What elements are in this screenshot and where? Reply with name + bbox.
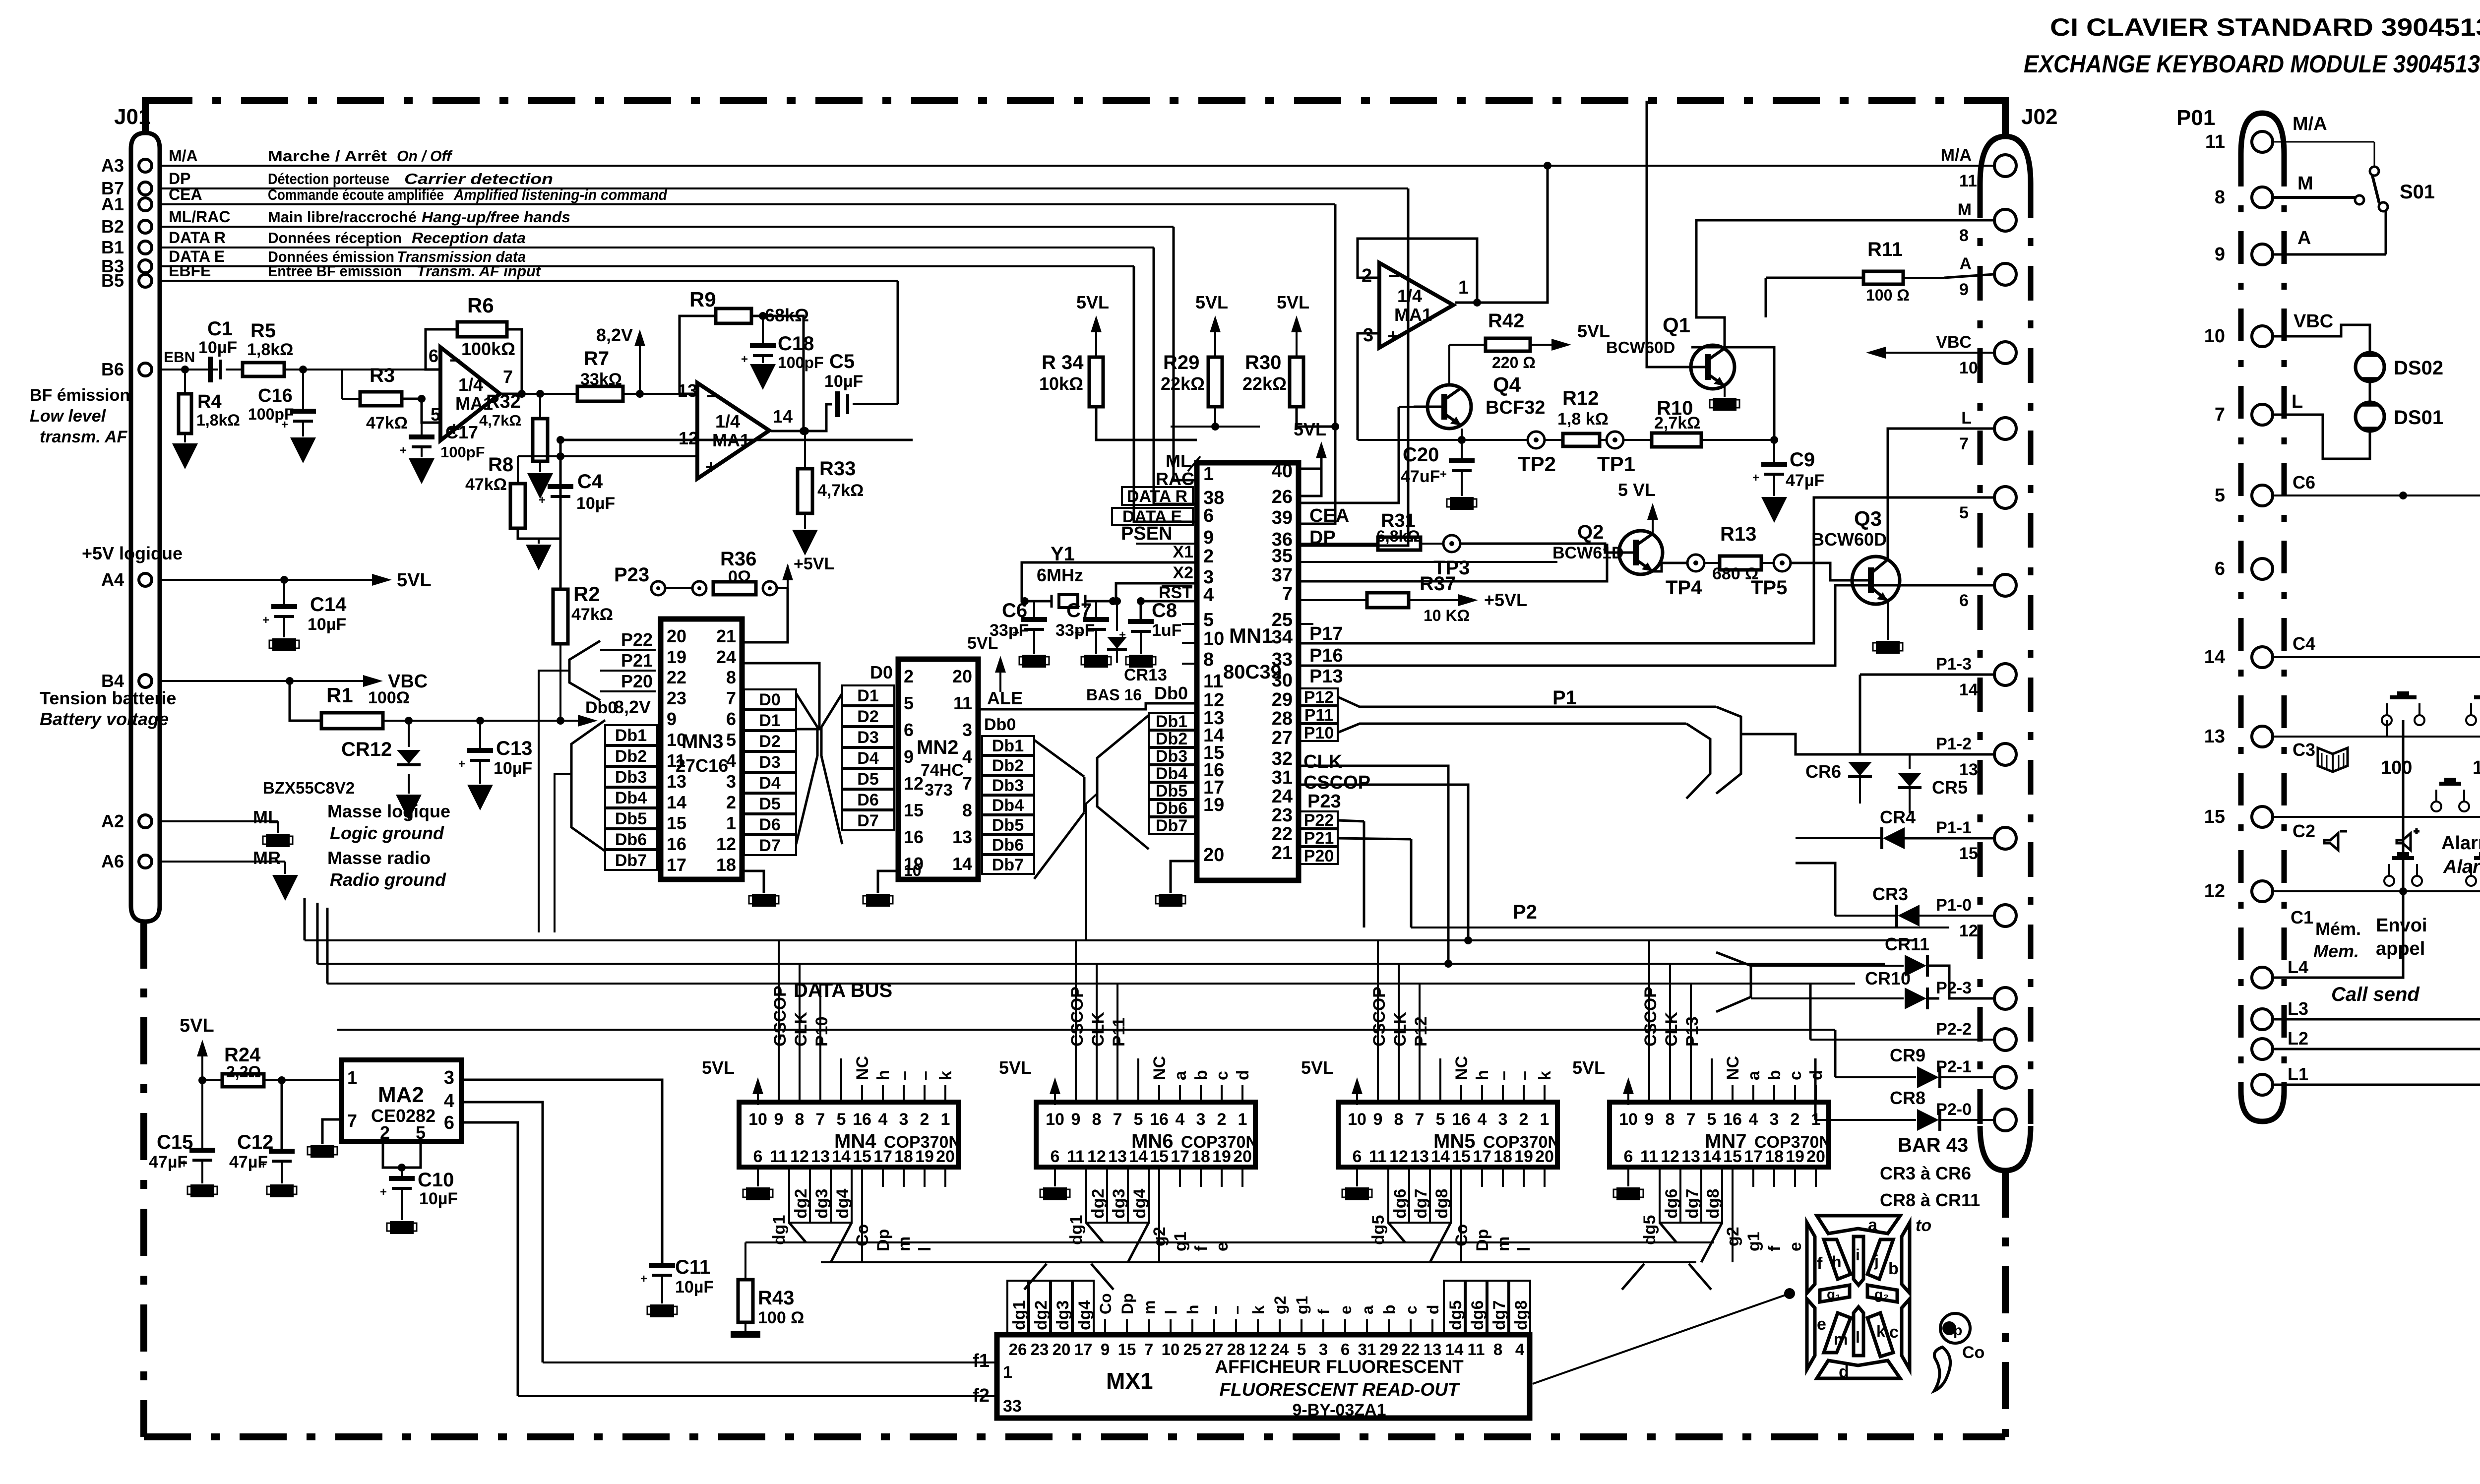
svg-text:7: 7	[1686, 1110, 1696, 1129]
svg-text:S01: S01	[2400, 181, 2435, 203]
capacitor C10	[380, 1169, 458, 1208]
wire opamp1 out	[500, 393, 578, 395]
wire signal M/A	[160, 165, 1994, 167]
svg-text:e: e	[1786, 1242, 1805, 1251]
svg-text:10µF: 10µF	[494, 759, 532, 778]
svg-text:dg6: dg6	[1391, 1189, 1410, 1219]
svg-text:1: 1	[347, 1067, 357, 1088]
svg-text:On / Off: On / Off	[397, 147, 453, 165]
svg-text:+: +	[1752, 471, 1759, 485]
resistor R43	[738, 1242, 804, 1327]
svg-text:9-BY-03ZA1: 9-BY-03ZA1	[1293, 1401, 1386, 1420]
diode CR5	[1898, 754, 1968, 813]
node P23 test point	[614, 564, 692, 595]
svg-text:1: 1	[941, 1110, 950, 1129]
node label 8,2V	[596, 325, 645, 398]
wire P17 line	[1299, 497, 1994, 643]
wire main board dash-dot border right below J02	[2002, 1171, 2009, 1437]
svg-text:Détection porteuse: Détection porteuse	[268, 170, 389, 187]
svg-text:B2: B2	[101, 216, 124, 237]
wire pointer diagonal	[1533, 1288, 1795, 1384]
ground C13	[467, 760, 493, 810]
node label P1	[1552, 687, 1577, 709]
svg-text:10: 10	[2473, 757, 2480, 778]
wire main board dash-dot border bottom	[144, 1433, 2005, 1440]
svg-text:f2: f2	[973, 1385, 990, 1406]
svg-text:f: f	[1192, 1245, 1211, 1251]
node J01 pin B2	[101, 216, 152, 237]
wire signal CEA	[160, 203, 1335, 205]
svg-text:L2: L2	[2288, 1028, 2308, 1049]
wire P1 bus a	[1338, 697, 1716, 707]
wire MN2 Db funnel	[1034, 740, 1084, 879]
capacitor C8	[1119, 597, 1197, 642]
svg-text:47µF: 47µF	[149, 1153, 187, 1172]
svg-text:Db6: Db6	[992, 836, 1024, 855]
wire MN3 funnel left	[555, 720, 605, 932]
node title line 1	[2050, 13, 2480, 41]
svg-text:33kΩ: 33kΩ	[580, 370, 622, 389]
svg-text:EBN: EBN	[164, 349, 195, 366]
node label BAR 43	[1898, 1134, 1968, 1156]
svg-text:CEA: CEA	[1309, 505, 1349, 526]
svg-text:9: 9	[2215, 244, 2225, 265]
svg-text:L3: L3	[2288, 998, 2308, 1019]
svg-text:D1: D1	[857, 686, 878, 705]
node 5VL crystal	[967, 634, 1006, 692]
svg-text:a: a	[1744, 1070, 1763, 1080]
diode CR4	[1796, 807, 1994, 849]
connector P01 module1 outline	[2176, 106, 2284, 1121]
svg-text:R13: R13	[1720, 523, 1756, 545]
svg-text:2: 2	[726, 792, 736, 812]
svg-text:to: to	[1916, 1216, 1931, 1235]
svg-text:10: 10	[748, 1110, 767, 1129]
svg-text:dg5: dg5	[1369, 1215, 1388, 1245]
wire cop drops MN5	[1378, 940, 1440, 1061]
wire signal EBFE	[160, 280, 898, 282]
wire X1 X2	[1021, 562, 1197, 605]
wire segment bus 2	[821, 1261, 1696, 1263]
svg-text:6,8kΩ: 6,8kΩ	[1376, 527, 1420, 545]
svg-text:6: 6	[1353, 1147, 1362, 1166]
svg-text:3: 3	[1319, 1340, 1328, 1359]
svg-text:R42: R42	[1488, 310, 1524, 332]
svg-text:f: f	[1817, 1254, 1823, 1273]
svg-text:14: 14	[1445, 1340, 1464, 1359]
svg-text:–: –	[895, 1071, 914, 1080]
wire TP3 to Q2	[1460, 544, 1614, 553]
wire module1 L2	[2273, 720, 2480, 1049]
svg-text:Db1: Db1	[992, 737, 1024, 755]
resistor R4	[179, 366, 240, 433]
svg-text:29: 29	[1380, 1340, 1398, 1359]
wire signal ML/RAC	[160, 226, 1174, 228]
svg-text:D7: D7	[857, 811, 878, 830]
svg-text:17: 17	[1074, 1340, 1093, 1359]
svg-text:14: 14	[2204, 647, 2225, 668]
svg-text:NC: NC	[853, 1056, 872, 1080]
capacitor C15	[149, 1076, 215, 1172]
svg-text:b: b	[1888, 1259, 1899, 1278]
transistor Q3	[1791, 507, 1900, 604]
svg-text:A4: A4	[101, 569, 124, 590]
svg-text:13: 13	[1410, 1147, 1429, 1166]
ground ML	[160, 821, 293, 847]
svg-text:33pF: 33pF	[1055, 621, 1095, 640]
svg-text:–: –	[1515, 1071, 1534, 1080]
svg-text:20: 20	[1203, 845, 1224, 866]
svg-text:CR3: CR3	[1872, 884, 1908, 904]
svg-text:A2: A2	[101, 811, 124, 831]
svg-text:g1: g1	[1744, 1232, 1763, 1251]
svg-text:9: 9	[1101, 1340, 1110, 1359]
svg-text:ML: ML	[253, 807, 279, 827]
svg-text:10µF: 10µF	[824, 372, 863, 391]
wire MN1 pin40 5VL	[1294, 419, 1327, 496]
svg-text:12: 12	[2204, 881, 2225, 902]
wire P2x verticals	[1810, 984, 1835, 1120]
svg-text:Masse radio: Masse radio	[327, 848, 431, 868]
svg-text:47kΩ: 47kΩ	[465, 475, 507, 494]
wire R36 5VL	[777, 555, 834, 591]
svg-text:14: 14	[667, 792, 686, 812]
svg-text:–: –	[1494, 1071, 1513, 1080]
svg-text:8: 8	[1493, 1340, 1502, 1359]
svg-text:10: 10	[1162, 1340, 1180, 1359]
svg-text:20: 20	[667, 626, 686, 646]
node TP2	[1518, 432, 1556, 476]
svg-text:3: 3	[899, 1110, 909, 1129]
svg-text:Db4: Db4	[992, 796, 1024, 815]
svg-text:AFFICHEUR FLUORESCENT: AFFICHEUR FLUORESCENT	[1215, 1357, 1464, 1377]
op-amp MA1a	[429, 346, 513, 440]
svg-text:NC: NC	[1452, 1056, 1471, 1080]
svg-text:3: 3	[1196, 1110, 1206, 1129]
wire MA2 pin4	[461, 1102, 543, 1362]
node title line 2	[2024, 50, 2480, 78]
svg-text:6: 6	[1341, 1340, 1350, 1359]
svg-text:g₁: g₁	[1827, 1287, 1841, 1302]
svg-text:8: 8	[795, 1110, 805, 1129]
svg-text:+: +	[400, 444, 407, 457]
wire Q1 collector	[1696, 220, 1994, 348]
svg-text:d: d	[1807, 1070, 1826, 1080]
svg-text:L: L	[2292, 391, 2303, 412]
svg-text:D5: D5	[857, 770, 878, 789]
svg-text:10kΩ: 10kΩ	[1039, 373, 1083, 394]
ground C17	[409, 447, 434, 484]
svg-text:CR5: CR5	[1932, 777, 1968, 798]
svg-text:DS01: DS01	[2394, 407, 2443, 429]
svg-text:5VL: 5VL	[397, 570, 432, 591]
svg-text:5: 5	[1707, 1110, 1717, 1129]
svg-text:C1: C1	[2291, 907, 2313, 927]
svg-text:C12: C12	[237, 1131, 273, 1153]
svg-text:14: 14	[1959, 680, 1978, 699]
svg-text:d: d	[1424, 1304, 1442, 1314]
svg-text:1: 1	[1540, 1110, 1550, 1129]
node J01 pin A4	[101, 569, 152, 590]
svg-text:10: 10	[1203, 628, 1224, 649]
svg-text:8: 8	[1092, 1110, 1102, 1129]
svg-text:BCW60D: BCW60D	[1811, 529, 1887, 550]
svg-text:R43: R43	[758, 1287, 794, 1309]
svg-text:b: b	[1192, 1070, 1211, 1080]
svg-text:7: 7	[1282, 584, 1293, 605]
svg-text:P22: P22	[1304, 811, 1334, 830]
diode CR6	[1805, 761, 1872, 804]
svg-text:20: 20	[1053, 1340, 1071, 1359]
svg-text:dg2: dg2	[1032, 1300, 1051, 1330]
svg-text:7: 7	[962, 773, 972, 794]
svg-text:R11: R11	[1867, 239, 1903, 260]
svg-text:5VL: 5VL	[702, 1057, 735, 1078]
svg-text:P12: P12	[1304, 688, 1334, 707]
svg-text:34: 34	[1272, 627, 1293, 648]
node label Masse radio	[253, 848, 446, 890]
svg-text:TP2: TP2	[1518, 452, 1556, 476]
svg-text:J02: J02	[2021, 105, 2057, 129]
wire module1 L1	[2273, 887, 2480, 1085]
svg-text:CR9: CR9	[1890, 1045, 1925, 1065]
wire 37 line	[1299, 544, 1607, 581]
wire P23 to MN3	[742, 588, 788, 642]
node J01 pin A1	[101, 194, 152, 214]
svg-text:A: A	[2297, 228, 2311, 248]
svg-text:47kΩ: 47kΩ	[366, 414, 408, 433]
svg-text:m: m	[1834, 1330, 1848, 1348]
svg-text:9: 9	[774, 1110, 784, 1129]
svg-text:6: 6	[429, 346, 438, 366]
svg-text:e: e	[1337, 1305, 1355, 1314]
node TP4	[1666, 555, 1704, 599]
svg-text:h: h	[1832, 1253, 1842, 1271]
node label ML/RAC	[169, 208, 570, 226]
svg-text:21: 21	[1272, 843, 1293, 864]
svg-text:4: 4	[962, 746, 972, 767]
svg-text:M: M	[2297, 173, 2313, 194]
svg-text:dg3: dg3	[1110, 1189, 1128, 1219]
resistor R31	[1299, 510, 1443, 550]
svg-text:RAC: RAC	[1156, 469, 1194, 489]
svg-text:Masse logique: Masse logique	[327, 801, 450, 821]
svg-text:4: 4	[1203, 585, 1214, 606]
svg-text:7: 7	[503, 367, 513, 387]
wire data bus funnel	[796, 693, 842, 844]
wire P1 bus b	[1338, 724, 1686, 733]
node label +5V logique	[82, 543, 183, 590]
ground MN2 pin10	[863, 871, 898, 907]
IC MN5 COP370N	[1301, 987, 1560, 1262]
capacitor C1	[198, 318, 237, 382]
resistor R34	[1039, 292, 1109, 407]
svg-text:5: 5	[837, 1110, 846, 1129]
svg-text:4: 4	[878, 1110, 888, 1129]
wire C5 up	[897, 281, 899, 404]
svg-text:47µF: 47µF	[229, 1153, 268, 1172]
wire CEA drop	[1300, 204, 1335, 524]
diode CR10	[1751, 968, 1939, 1009]
wire DATA E drop	[1134, 266, 1197, 522]
ground C15	[187, 1160, 217, 1197]
svg-text:27: 27	[1205, 1340, 1224, 1359]
svg-text:7: 7	[726, 688, 736, 708]
wire bus l5	[337, 1029, 1835, 1031]
svg-text:80C39: 80C39	[1223, 661, 1282, 683]
svg-text:10µF: 10µF	[419, 1189, 458, 1208]
svg-text:m: m	[1494, 1237, 1513, 1251]
resistor R5	[226, 320, 440, 376]
svg-text:Radio ground: Radio ground	[330, 869, 446, 890]
wire module1 C2 row	[2273, 817, 2480, 841]
node J01 pin A6	[101, 851, 152, 871]
resistor R13	[1704, 523, 1774, 583]
ground C7	[1081, 629, 1111, 668]
wire module1 C6 row	[2273, 472, 2480, 499]
svg-text:16: 16	[1452, 1110, 1471, 1129]
svg-text:Db2: Db2	[992, 756, 1024, 775]
svg-text:Transm. AF input: Transm. AF input	[417, 262, 542, 280]
svg-text:D0: D0	[870, 662, 893, 682]
wire EBN	[160, 349, 218, 370]
svg-text:13: 13	[1681, 1147, 1700, 1166]
IC MN6 COP370N	[999, 987, 1258, 1262]
svg-text:L: L	[1961, 409, 1972, 428]
wire module1 L3	[2273, 720, 2480, 1019]
ground R8	[518, 528, 552, 570]
node label BF emission	[30, 386, 130, 446]
node label DATA E	[169, 247, 526, 265]
svg-text:10: 10	[1348, 1110, 1366, 1129]
svg-text:Q2: Q2	[1577, 521, 1604, 543]
svg-text:D1: D1	[759, 711, 780, 730]
svg-text:10: 10	[1959, 359, 1978, 377]
svg-text:R36: R36	[720, 548, 756, 570]
svg-text:c: c	[1786, 1071, 1805, 1080]
svg-text:12: 12	[679, 428, 698, 448]
svg-text:5VL: 5VL	[967, 634, 998, 653]
svg-text:+5VL: +5VL	[794, 555, 834, 573]
diode CR3	[1796, 863, 1994, 927]
svg-text:+: +	[458, 757, 465, 771]
svg-text:47kΩ: 47kΩ	[571, 605, 613, 624]
svg-text:Alarm: Alarm	[2441, 833, 2480, 854]
svg-text:C16: C16	[258, 385, 293, 406]
svg-text:l: l	[916, 1247, 934, 1251]
svg-text:100pF: 100pF	[778, 354, 823, 371]
svg-text:5: 5	[1203, 610, 1214, 630]
svg-text:P23: P23	[614, 564, 649, 586]
wire signal DATA E	[160, 265, 1134, 267]
svg-text:CR4: CR4	[1880, 807, 1916, 827]
ground MR	[160, 862, 298, 901]
svg-text:6: 6	[904, 720, 914, 740]
svg-text:1/4: 1/4	[458, 374, 483, 395]
svg-text:11: 11	[2205, 131, 2225, 152]
wire Q1 emitter gnd	[1710, 386, 1739, 411]
IC MN3 27C16 box	[661, 619, 742, 879]
wire MX1 funnel left	[1024, 1264, 1114, 1290]
svg-text:−: −	[449, 350, 461, 371]
svg-text:P1-1: P1-1	[1936, 818, 1972, 837]
svg-text:Amplified listening-in command: Amplified listening-in command	[453, 186, 668, 203]
key module1 10	[2466, 691, 2480, 778]
wire R30 down	[1297, 407, 1339, 431]
svg-text:29: 29	[1272, 689, 1293, 710]
svg-text:P1-2: P1-2	[1936, 735, 1972, 753]
svg-text:P16: P16	[1309, 645, 1343, 666]
svg-text:Dp: Dp	[1473, 1229, 1492, 1251]
capacitor C12	[229, 1076, 295, 1172]
svg-text:Db5: Db5	[615, 809, 647, 828]
svg-text:VBC: VBC	[2294, 311, 2333, 332]
crystal Y1	[1037, 543, 1085, 608]
svg-text:10µF: 10µF	[576, 494, 615, 513]
svg-text:16: 16	[904, 827, 924, 847]
svg-text:27: 27	[1272, 728, 1293, 748]
svg-text:Mem.: Mem.	[2313, 941, 2359, 961]
svg-text:CSCOP: CSCOP	[1303, 772, 1370, 793]
svg-text:P21: P21	[621, 650, 653, 671]
key module1 alarm	[2397, 778, 2480, 877]
svg-text:10: 10	[2204, 326, 2225, 347]
transistor Q1	[1606, 313, 1735, 389]
svg-text:7: 7	[1959, 434, 1969, 453]
svg-text:−: −	[706, 385, 718, 407]
svg-text:A: A	[1959, 254, 1972, 273]
svg-text:8: 8	[2215, 187, 2225, 208]
svg-text:9: 9	[667, 709, 677, 729]
wire main board dash-dot border left	[140, 922, 147, 1437]
svg-text:C20: C20	[1403, 444, 1439, 466]
svg-text:m: m	[895, 1237, 914, 1251]
svg-text:Logic ground: Logic ground	[330, 823, 444, 843]
svg-text:0Ω: 0Ω	[728, 567, 751, 586]
svg-text:Main libre/raccroché: Main libre/raccroché	[268, 208, 417, 226]
svg-text:Db7: Db7	[992, 856, 1024, 874]
svg-text:Db1: Db1	[1156, 712, 1187, 731]
ground C9	[1761, 474, 1787, 523]
wire MA2 pin2 5	[383, 1141, 421, 1176]
svg-text:Call send: Call send	[2331, 984, 2420, 1005]
svg-text:R8: R8	[488, 454, 513, 476]
ground R4	[172, 433, 198, 469]
svg-text:X2: X2	[1173, 563, 1193, 582]
svg-text:l: l	[1856, 1328, 1860, 1346]
svg-text:Db5: Db5	[1156, 782, 1187, 801]
svg-text:CLK: CLK	[1303, 751, 1343, 772]
wire signal DP	[160, 187, 1408, 189]
svg-text:Q3: Q3	[1854, 507, 1882, 530]
key module1 hash	[2466, 852, 2480, 925]
svg-text:C6: C6	[2293, 472, 2315, 493]
ground C12	[267, 1161, 297, 1197]
svg-text:28: 28	[1227, 1340, 1245, 1359]
svg-text:CLK: CLK	[1089, 1012, 1108, 1047]
svg-text:Low level: Low level	[30, 407, 107, 426]
ground C8	[1126, 631, 1156, 668]
svg-text:dg2: dg2	[792, 1189, 810, 1219]
svg-text:1,8 kΩ: 1,8 kΩ	[1557, 410, 1609, 429]
svg-text:R 34: R 34	[1042, 352, 1084, 373]
svg-text:1: 1	[1238, 1110, 1247, 1129]
svg-text:6: 6	[753, 1147, 763, 1166]
svg-text:g₂: g₂	[1874, 1287, 1889, 1302]
svg-text:5: 5	[2215, 485, 2225, 506]
svg-text:3: 3	[1770, 1110, 1779, 1129]
connector J02 outline	[1980, 105, 2057, 1171]
